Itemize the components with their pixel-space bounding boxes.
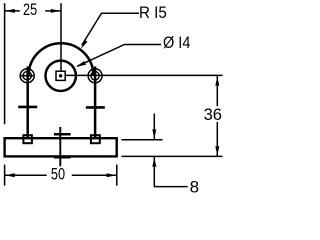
dim 25 left extension line bbox=[4, 3, 6, 124]
dim 8 lower arrowhead bbox=[152, 157, 156, 166]
dim 36 bottom arrow bbox=[215, 146, 219, 155]
dim 50 right extension line bbox=[116, 165, 118, 186]
left tab outer circle bbox=[20, 69, 34, 83]
base plate bbox=[5, 138, 117, 156]
dim 36 line lower segment bbox=[216, 122, 218, 156]
hole center dot bbox=[59, 74, 62, 77]
right tab inner circle bbox=[91, 72, 99, 80]
dim 8 upper arrowhead bbox=[152, 129, 156, 138]
dim 50 left extension line bbox=[4, 165, 6, 186]
left body side line bbox=[26, 67, 29, 139]
dim 25 line left segment bbox=[5, 10, 20, 12]
left tab horizontal tick bbox=[20, 75, 33, 77]
svg-text:R I5: R I5 bbox=[139, 3, 167, 22]
base centerline vertical bbox=[59, 127, 61, 166]
svg-text:8: 8 bbox=[190, 177, 199, 196]
leader R15 arrowhead bbox=[81, 40, 88, 49]
dim 50 line left segment bbox=[5, 174, 47, 176]
dim 8 lower arrow tail bbox=[153, 157, 155, 187]
dim 25 right extension line (hole axis up) bbox=[60, 3, 62, 71]
svg-text:Ø I4: Ø I4 bbox=[163, 33, 190, 52]
base centerline tick lower bbox=[54, 156, 71, 159]
dim 25 line right segment bbox=[45, 10, 61, 12]
leader diameter 14 line bbox=[77, 45, 161, 67]
dim 25 left arrow bbox=[5, 9, 14, 13]
right body side line bbox=[94, 67, 97, 139]
dim 25 right arrow bbox=[51, 9, 60, 13]
dim 50 line right segment bbox=[72, 174, 117, 176]
dim 36 top arrow bbox=[215, 76, 219, 85]
dim 50 right arrow bbox=[107, 173, 116, 177]
left centerline cross tick bbox=[18, 106, 37, 109]
leader R15 line bbox=[82, 13, 139, 45]
dim 36 top extension line (hole axis right) bbox=[66, 74, 223, 76]
base hidden square left bbox=[23, 135, 32, 143]
base hidden square right bbox=[91, 135, 100, 143]
dim 50 left arrow bbox=[5, 173, 14, 177]
right tab outer circle bbox=[88, 69, 102, 83]
dim 8 upper arrow tail bbox=[153, 114, 155, 140]
dim 36 bottom extension line bbox=[122, 155, 223, 157]
hole circle Ø14 bbox=[46, 61, 76, 91]
right centerline cross tick bbox=[86, 106, 105, 109]
base centerline tick upper bbox=[54, 133, 71, 136]
hole center box bbox=[56, 71, 65, 80]
dim 36 line bbox=[216, 75, 218, 106]
outer arc R15 body bbox=[29, 43, 94, 75]
left tab inner circle bbox=[23, 72, 31, 80]
svg-text:36: 36 bbox=[204, 105, 222, 124]
leader diameter 14 arrowhead bbox=[76, 61, 86, 67]
svg-text:50: 50 bbox=[51, 165, 65, 184]
svg-text:25: 25 bbox=[23, 0, 37, 19]
dim 8 jog line bbox=[154, 186, 188, 188]
dim 8 top extension line (base top right) bbox=[122, 139, 163, 141]
